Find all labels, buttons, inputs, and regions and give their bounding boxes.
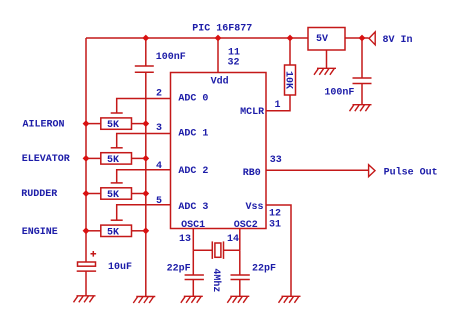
svg-text:Vss: Vss [246, 202, 264, 213]
node junction 8V/C2 [359, 35, 366, 42]
svg-text:2: 2 [156, 89, 162, 100]
svg-text:5K: 5K [107, 155, 119, 166]
svg-text:ENGINE: ENGINE [22, 227, 58, 238]
svg-text:RB0: RB0 [243, 168, 261, 179]
wire crystal to OSC2 [224, 249, 240, 251]
wire 5V regulator ground lead [326, 50, 328, 68]
svg-text:10uF: 10uF [108, 262, 132, 273]
svg-text:14: 14 [227, 234, 239, 245]
svg-text:12: 12 [269, 209, 281, 220]
potentiometer VR1 wiper bar [111, 112, 123, 114]
wire rail from 5V regulator to 8V input [345, 37, 369, 39]
svg-text:Pulse Out: Pulse Out [384, 167, 438, 179]
node junction rail/Vdd [215, 35, 222, 42]
node junction gndbus/VR1 right [142, 120, 149, 127]
potentiometer VR3 right wire [132, 193, 146, 195]
svg-text:10K: 10K [283, 71, 294, 89]
svg-text:5: 5 [156, 196, 162, 207]
wire C4 to ground [192, 280, 194, 297]
svg-text:ELEVATOR: ELEVATOR [22, 154, 70, 165]
potentiometer VR2 5K left wire [86, 157, 101, 159]
potentiometer VR2 wiper bar [111, 147, 123, 149]
wire Vdd lead [217, 38, 219, 73]
wire C3 to ground [85, 271, 87, 296]
potentiometer VR3 5K body [101, 188, 132, 199]
svg-text:5K: 5K [107, 120, 119, 131]
svg-text:1: 1 [275, 100, 281, 111]
svg-text:8V In: 8V In [383, 35, 413, 46]
svg-text:ADC 2: ADC 2 [178, 166, 208, 177]
potentiometer VR2 right wire [132, 157, 146, 159]
resistor R5 10K top lead [289, 38, 291, 65]
crystal X1 left electrode [211, 241, 213, 259]
op IC U1 PIC16F877 body [171, 73, 267, 229]
svg-text:13: 13 [179, 234, 191, 245]
ground under Vss [279, 296, 301, 303]
wire OSC1 node down to C4 [192, 250, 194, 275]
svg-text:33: 33 [270, 155, 282, 166]
wire top +5V rail [86, 37, 308, 39]
potentiometer VR3 wiper bar [111, 182, 123, 184]
svg-text:PIC 16F877: PIC 16F877 [192, 24, 252, 35]
node junction bus/VR2 left [83, 155, 90, 162]
ground under 5V regulator [314, 68, 336, 75]
wire Vss pins to ground [266, 205, 291, 296]
node junction bus/VR3 left [83, 190, 90, 197]
potentiometer VR4 wiper bar [111, 219, 123, 221]
capacitor C3 10uF bottom plate [77, 270, 96, 272]
svg-text:MCLR: MCLR [240, 107, 264, 118]
wire VR1 wiper to pin 2 [117, 99, 171, 114]
wire C5 to ground [239, 280, 241, 297]
node junction gndbus/VR2 right [142, 155, 149, 162]
svg-text:32: 32 [228, 58, 240, 69]
node junction rail/10K [287, 35, 294, 42]
potentiometer VR3 5K left wire [86, 193, 101, 195]
capacitor C3 10uF top plate [78, 262, 96, 266]
ground under C3 10uF [74, 296, 96, 303]
potentiometer VR2 5K body [101, 153, 132, 164]
arrow Pulse Out output [369, 165, 375, 177]
capacitor C1 100nF plates [135, 66, 154, 72]
svg-text:3: 3 [156, 123, 162, 134]
potentiometer VR1 5K left wire [86, 123, 101, 125]
potentiometer VR4 5K body [101, 225, 132, 236]
wire 10K to MCLR pin 1 [266, 95, 290, 111]
wire OSC2 lead [239, 229, 241, 251]
svg-text:100nF: 100nF [156, 52, 186, 63]
node junction gndbus/VR3 right [142, 190, 149, 197]
svg-text:ADC 1: ADC 1 [178, 129, 208, 140]
wire OSC1 to crystal [193, 249, 212, 251]
potentiometer VR1 right wire [132, 123, 146, 125]
wire VR3 wiper to pin 4 [117, 170, 171, 183]
ground under C2 [350, 105, 372, 112]
wire VR2 wiper to pin 3 [117, 134, 171, 148]
wire RB0 pin 33 to pulse out [266, 169, 369, 171]
crystal X1 body [215, 243, 221, 257]
ground under C4 [181, 296, 203, 303]
svg-text:31: 31 [269, 219, 281, 230]
svg-text:AILERON: AILERON [23, 120, 65, 131]
wire 8V node to C2 [361, 38, 363, 78]
wire left +5V bus [85, 38, 87, 262]
svg-text:Vdd: Vdd [211, 76, 229, 88]
svg-text:100nF: 100nF [324, 88, 354, 99]
node junction gndbus/VR4 right [142, 227, 149, 234]
svg-text:ADC 3: ADC 3 [178, 202, 208, 213]
ground under C5 [227, 296, 249, 303]
crystal X1 right electrode [223, 241, 225, 259]
svg-text:OSC1: OSC1 [181, 220, 205, 231]
wire OSC2 node down to C5 [239, 250, 241, 275]
svg-text:4Mhz: 4Mhz [210, 268, 222, 292]
potentiometer VR4 right wire [132, 230, 146, 232]
arrow 8V In input [369, 32, 375, 45]
svg-text:ADC 0: ADC 0 [178, 94, 208, 105]
svg-text:OSC2: OSC2 [234, 220, 258, 231]
capacitor C4 22pF plates [185, 275, 204, 280]
node junction bus/VR1 left [83, 120, 90, 127]
wire C2 to ground [361, 84, 363, 105]
svg-text:5V: 5V [316, 34, 328, 45]
potentiometer VR4 5K left wire [86, 230, 101, 232]
resistor R5 10K body [285, 65, 296, 95]
wire ground bus top segment [145, 38, 147, 66]
capacitor C2 100nF plates [353, 78, 372, 84]
potentiometer VR1 5K body [101, 118, 132, 129]
wire OSC1 lead [192, 229, 194, 251]
svg-text:22pF: 22pF [167, 264, 191, 275]
wire VR4 wiper to pin 5 [117, 205, 171, 220]
svg-text:4: 4 [156, 161, 162, 172]
capacitor C3 plus sign [91, 251, 97, 257]
svg-text:5K: 5K [107, 190, 119, 201]
svg-text:5K: 5K [107, 227, 119, 238]
node junction rail/C1 [142, 35, 149, 42]
ground under pot bus [133, 297, 155, 304]
wire ground bus lower segment [145, 72, 147, 296]
capacitor C5 22pF plates [231, 275, 250, 280]
svg-text:22pF: 22pF [252, 264, 276, 275]
node junction bus/VR4 left [83, 227, 90, 234]
svg-text:RUDDER: RUDDER [21, 189, 57, 200]
regulator U2 5V body [308, 28, 345, 51]
